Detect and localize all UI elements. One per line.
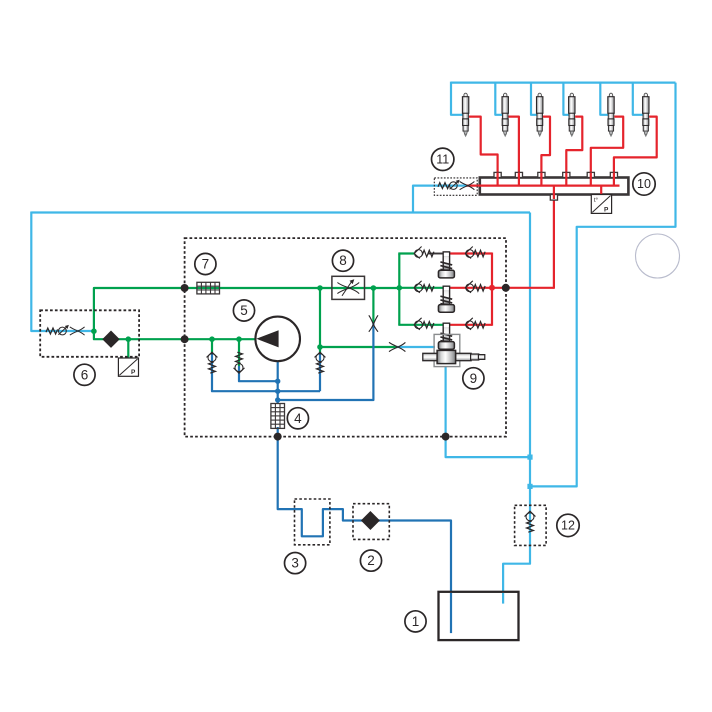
wire HP feed riser to rail (red) (553, 199, 555, 289)
wire HP pipe injector 6 (red) (614, 117, 657, 173)
box 6 pressure regulator (dashed) (40, 310, 139, 357)
box 12 return check valve (dotted) (515, 505, 547, 545)
node boundary port regulator (181, 335, 189, 343)
label 6 (74, 364, 95, 385)
svg-text:8: 8 (339, 253, 347, 268)
wire relief stub below junction 212 (green) (211, 339, 213, 353)
node boundary port return (442, 433, 450, 441)
wire HP pipe injector 5 (red) (591, 117, 623, 173)
svg-text:1: 1 (412, 614, 420, 629)
wire branch to metering unit 9 (green) (320, 288, 397, 347)
wire main feed line y=288 through filter 7 and unit 8 (green) (185, 287, 400, 289)
wire HP inlet manifold (green) (398, 254, 400, 325)
throttle on overflow line (369, 315, 378, 331)
wire HP pipe injector 1 (red) (469, 117, 498, 173)
wire return drop injector 5 (600, 82, 608, 115)
wire rail port drop 6 (red) (613, 172, 615, 185)
node green junction (371, 285, 377, 291)
wire metering-unit 9 return (cyan) (446, 366, 530, 457)
wire relief valve 3 tail (blue) (319, 354, 321, 392)
node green junction (236, 336, 242, 342)
svg-text:10: 10 (637, 177, 651, 191)
wire long return header y=212 (cyan) (31, 211, 530, 213)
label 3 (285, 553, 306, 574)
wire relief valve 2 tail (blue) (239, 366, 278, 381)
injector 4 (569, 93, 575, 137)
check valve inlet row 3 (414, 318, 434, 330)
unit 9 metering unit housing (434, 334, 460, 366)
box 2 pre-filter (dashed) (353, 504, 389, 540)
wire rail port drop 1 (red) (497, 172, 499, 185)
wire fuel-metering feed into unit 9 (cyan) (397, 346, 435, 348)
rail inlet port 2 (515, 172, 522, 177)
rail inlet port 4 (563, 172, 570, 177)
svg-text:9: 9 (470, 371, 478, 386)
unit 9 center boss (437, 350, 456, 363)
label 12 (557, 514, 579, 536)
wire HP pipe injector 3 (red) (541, 117, 550, 173)
node green junction (317, 344, 323, 350)
node green junction (317, 285, 323, 291)
wire rail port drop 4 (red) (565, 172, 567, 185)
check valve regulator 6 (58, 325, 69, 335)
wire return drop injector 1 (451, 82, 463, 115)
label 5 (233, 300, 254, 321)
pump element plunger row 1 (438, 252, 454, 278)
wire pump suction down from pump (blue) (277, 339, 279, 403)
wire HP element row3 inlet (green) (398, 324, 443, 326)
wire rail port drop 3 (red) (540, 172, 542, 185)
check valve inlet row 2 (414, 281, 434, 293)
wire relief stub below junction 320 (green) (319, 347, 321, 354)
wire suction pipe inside tank (blue) (450, 593, 452, 633)
label 4 (287, 408, 308, 429)
wire HP element row2 inlet (green) (399, 287, 443, 289)
node boundary port HP out (502, 284, 510, 292)
wire HP element row2 outlet to rail feed (red) (450, 287, 554, 289)
label 2 (360, 550, 381, 571)
wire rail to HP riser (red) (553, 186, 555, 199)
check valve relief 11 (450, 180, 460, 190)
svg-text:P: P (604, 207, 609, 214)
injector 6 (643, 93, 649, 137)
wire HP collector (red) (491, 253, 493, 326)
wire pressure sensor tap (green) (127, 339, 129, 358)
node red junction (489, 285, 495, 291)
rail outlet port (bottom) (550, 195, 557, 201)
wire return drop to tank via valve 12 (cyan) (503, 213, 530, 604)
wire branch to overflow throttle (green) (372, 288, 374, 323)
box 11 pressure relief (dotted) (434, 178, 477, 195)
wire tank suction run (blue) (278, 436, 451, 633)
rail 10 common rail body (480, 178, 629, 195)
decorative circle (636, 234, 680, 278)
spring relief 11 (438, 183, 450, 189)
wire HP element row1 inlet inner (dark) (428, 253, 444, 255)
injector 3 (537, 93, 543, 137)
rail inlet port 6 (610, 172, 617, 177)
wire overflow return to suction (blue) (278, 323, 374, 401)
injector 5 (608, 93, 614, 137)
node blue junction (275, 379, 280, 384)
wire injector-return bus (cyan) (451, 81, 676, 83)
svg-text:3: 3 (291, 556, 299, 571)
label 9 (463, 368, 484, 389)
tank 1 fuel tank (439, 592, 519, 640)
box pump assembly boundary (dashed) (185, 238, 506, 437)
node cyan junction (527, 484, 532, 489)
wire HP element row1 outlet (red) (450, 252, 492, 254)
unit 8 fuel metering unit (332, 276, 365, 299)
wire HP element row1 inlet (green) (398, 252, 414, 254)
unit 9 shaft left (423, 353, 438, 360)
sensor P low pressure sensor box (118, 358, 138, 376)
box 3 water trap (dashed) (295, 499, 330, 545)
wire transfer line riser x=94 (green) (94, 288, 186, 332)
check valve relief B (inverted) (234, 352, 245, 373)
node green junction (397, 285, 403, 291)
wire rail port drop 5 (red) (590, 172, 592, 185)
wire return drop injector 2 (495, 82, 502, 115)
rail inlet port 5 (587, 172, 594, 177)
node boundary port feed (181, 284, 189, 292)
wire rail port drop 2 (red) (518, 172, 520, 185)
node cyan junction (527, 455, 532, 460)
sensor rail pressure sensor box (591, 195, 611, 214)
pump element plunger row 2 (438, 286, 454, 312)
check valve outlet row 2 (465, 281, 485, 293)
svg-text:11: 11 (436, 152, 449, 166)
check valve inlet row 1 (414, 247, 434, 259)
pump element plunger row 3 (438, 323, 454, 349)
pump 5 transfer pump (255, 317, 300, 362)
check valve 12 (525, 511, 536, 532)
wire left return down to regulator 6 (cyan) (31, 212, 94, 332)
wire relief stub below junction 239 (green) (238, 339, 240, 366)
check valve relief C (315, 352, 326, 373)
node green junction (126, 336, 132, 342)
rail inlet port 3 (538, 172, 545, 177)
rail inlet port 1 (494, 172, 501, 177)
wire return drop injector 3 (531, 82, 537, 115)
svg-text:6: 6 (81, 367, 89, 382)
svg-text:7: 7 (202, 257, 210, 272)
wire return pipe inside tank (cyan) (502, 593, 504, 604)
svg-text:4: 4 (294, 411, 302, 426)
spring regulator 6 (46, 328, 58, 334)
wire rail relief return: rail through valve 11 down and across (cyan) (413, 186, 468, 213)
label 1 (405, 611, 426, 632)
node green junction (91, 328, 97, 334)
node blue junction (275, 389, 280, 394)
check valve outlet row 1 (465, 247, 485, 259)
svg-text:P: P (131, 369, 136, 376)
injector 2 (502, 93, 508, 137)
wire return drop injector 6 (633, 82, 643, 115)
wire return drop injector 4 (563, 82, 569, 115)
label 7 (195, 253, 216, 274)
throttle relief 11 (460, 181, 475, 189)
node green junction (209, 336, 215, 342)
wire HP pipe injector 2 (red) (509, 117, 519, 173)
check valve relief A (207, 352, 218, 373)
throttle regulator 6 (70, 327, 85, 335)
wire relief valve 1 tail (blue) (212, 353, 320, 391)
svg-text:5: 5 (240, 303, 248, 318)
node blue junction (275, 397, 280, 402)
node boundary port suction (274, 433, 282, 441)
filter 7 fine filter (197, 282, 220, 294)
svg-text:2: 2 (367, 553, 375, 568)
label 11 (432, 148, 454, 170)
filter diamond in box 2 (361, 511, 380, 530)
label 8 (332, 250, 353, 271)
throttle before metering unit 9 (389, 342, 405, 351)
wire rail to pressure sensor (red) (600, 186, 602, 196)
label 10 (633, 173, 655, 195)
filter 4 pre-filter (271, 404, 285, 429)
svg-text:t°: t° (594, 198, 599, 204)
wire HP element row3 outlet (red) (450, 324, 492, 326)
svg-text:12: 12 (561, 518, 575, 532)
wire regulator-6 branch to pump (green) (94, 330, 256, 339)
wire rail internal gallery (red) (467, 185, 620, 187)
check valve outlet row 3 (465, 318, 485, 330)
injector 1 (462, 93, 468, 137)
wire HP pipe injector 4 (red) (566, 117, 582, 173)
wire return bus right side down to junction (cyan) (529, 83, 676, 487)
filter diamond in box 6 (102, 331, 119, 348)
wire suction through filter 4 to tank line (blue) (277, 427, 279, 437)
unit 9 shaft right stepped (456, 353, 472, 360)
